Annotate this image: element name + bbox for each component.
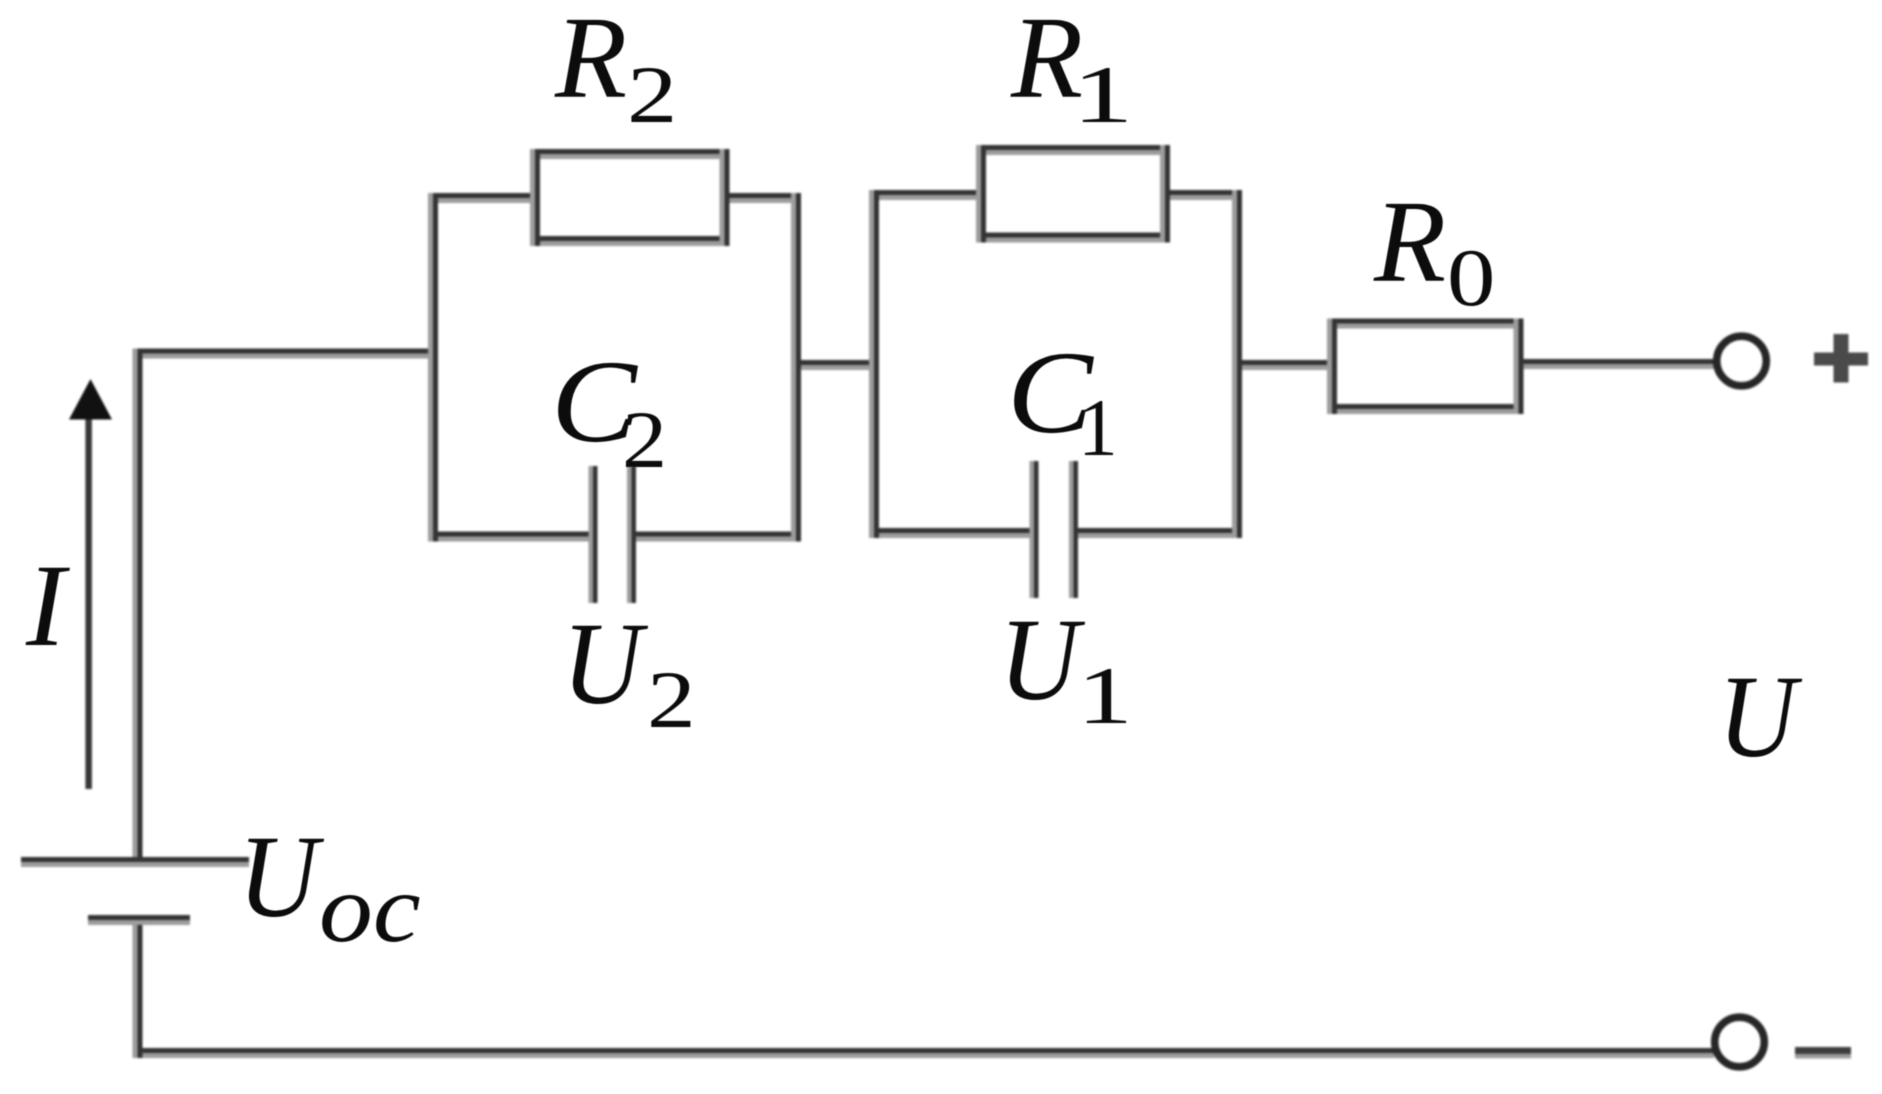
svg-text:U: U (562, 598, 648, 729)
svg-text:0: 0 (1447, 233, 1495, 324)
svg-text:2: 2 (622, 394, 667, 485)
svg-text:U: U (1718, 651, 1803, 782)
svg-text:U: U (238, 811, 324, 942)
svg-text:1: 1 (1077, 651, 1133, 741)
svg-text:2: 2 (647, 655, 696, 745)
svg-text:R: R (554, 0, 627, 123)
svg-text:2: 2 (627, 49, 677, 140)
svg-text:I: I (25, 540, 70, 671)
svg-text:U: U (999, 594, 1085, 725)
svg-text:1: 1 (1072, 49, 1134, 140)
svg-text:R: R (1373, 176, 1446, 307)
svg-text:oc: oc (319, 856, 421, 963)
svg-text:1: 1 (1078, 383, 1118, 473)
